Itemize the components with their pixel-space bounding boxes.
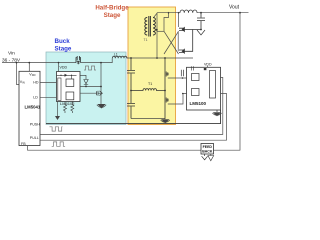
arrow feedback right — [208, 154, 214, 161]
wire power ground rail dark — [46, 110, 221, 124]
diode bootstrap mid — [80, 75, 86, 79]
svg-text:PULL: PULL — [30, 136, 39, 140]
capacitor divider C1 — [127, 58, 135, 91]
internal rail of LM5102 — [57, 74, 77, 76]
wire Vin to LM5041 VDD pin — [28, 63, 30, 72]
wire cross-couple diagonal A — [164, 31, 179, 54]
internal driver squares — [192, 74, 200, 81]
wire cap bottom to FET source — [131, 118, 165, 120]
internal driver square high — [66, 79, 74, 87]
ground half-bridge — [161, 119, 169, 123]
wire output rail top — [157, 12, 180, 14]
ground buck driver — [57, 102, 59, 117]
svg-text:Stage: Stage — [55, 46, 72, 53]
wire PULL line — [40, 94, 227, 141]
winding left vertical — [145, 18, 147, 36]
junction switch node — [100, 62, 102, 64]
label Half-Bridge Stage — [95, 5, 129, 20]
wire driver to diode node — [80, 86, 101, 88]
wire HD — [40, 82, 57, 84]
wire LD — [40, 96, 57, 98]
transistor sync rectifier upper — [179, 13, 202, 31]
wire Vin to LM5041 VIN pin — [17, 63, 20, 85]
wire PUSH line — [40, 78, 223, 135]
wire VDD stub — [58, 63, 60, 72]
wire cross-couple diagonal B — [164, 31, 179, 54]
ground feedback left — [202, 154, 208, 160]
wire low gate to driver — [168, 94, 187, 105]
svg-text:T1: T1 — [144, 38, 148, 42]
wire main mid rail — [127, 57, 193, 59]
feedback block — [201, 144, 214, 155]
svg-text:Buck: Buck — [55, 38, 71, 45]
ground buck branch — [97, 104, 105, 109]
svg-text:VDD: VDD — [204, 62, 212, 66]
waveform pull — [52, 142, 65, 146]
waveform push — [50, 127, 63, 131]
half-bridge stage highlight region — [128, 7, 176, 125]
gate driver U1 LM5102 box — [57, 72, 81, 102]
capacitor output — [197, 13, 205, 30]
capacitor divider C2 — [127, 91, 135, 119]
wire rail after buck FET to node — [81, 58, 113, 62]
svg-text:L1: L1 — [114, 52, 118, 56]
wire winding top elbow to rail — [154, 13, 157, 17]
wire driver low gate — [80, 92, 97, 94]
resistor gate R2 — [71, 102, 74, 114]
svg-text:Stage: Stage — [104, 12, 121, 19]
ground output cap — [197, 30, 205, 35]
pin labels LM5041 — [20, 73, 40, 146]
winding right vertical — [153, 18, 155, 36]
svg-text:FB: FB — [21, 142, 26, 146]
svg-text:LM5100: LM5100 — [190, 101, 207, 106]
capacitor boot — [181, 70, 183, 76]
resistor gate R1 — [64, 102, 67, 114]
junction VIN — [28, 62, 30, 64]
svg-text:VDD: VDD — [29, 73, 35, 78]
transistor buck high-side FET — [76, 56, 81, 64]
wire high gate to driver — [168, 77, 187, 79]
svg-text:LM5041: LM5041 — [25, 105, 41, 110]
svg-text:Vout: Vout — [229, 5, 240, 11]
junction node FET drain — [164, 57, 166, 59]
svg-text:BACK: BACK — [202, 150, 213, 154]
transistor half-bridge high FET — [165, 58, 169, 91]
transformer core lines — [149, 16, 151, 37]
svg-text:Vin: Vin — [8, 51, 15, 57]
wire Vout drop — [214, 13, 241, 151]
capacitor vdd bypass — [192, 66, 194, 70]
wire secondary vertical — [156, 13, 158, 58]
chip LM5041 box — [19, 71, 40, 145]
transistor sync rectifier lower — [179, 30, 193, 53]
junction node secondary vertical — [156, 57, 158, 59]
buck stage highlight region — [46, 52, 126, 125]
phase dot — [156, 29, 158, 31]
svg-text:Half-Bridge: Half-Bridge — [95, 5, 129, 12]
wire VDD stub — [207, 66, 209, 68]
svg-text:LD: LD — [33, 95, 38, 99]
wire FB line — [28, 146, 202, 150]
wire switch node down branch — [100, 63, 102, 104]
ground LM5100 — [216, 110, 218, 112]
wire tap — [157, 30, 164, 32]
gate driver U2 LM5100 box — [187, 67, 221, 110]
node Vin label — [2, 51, 21, 64]
label Buck Stage — [55, 38, 72, 53]
junction node divider top — [130, 57, 132, 59]
wire Vin rail — [2, 62, 76, 64]
svg-text:VIN: VIN — [20, 80, 25, 85]
svg-text:VDD: VDD — [60, 66, 68, 70]
wire staircase from rail — [164, 13, 169, 32]
svg-text:FEED: FEED — [203, 145, 213, 149]
transistor buck low-side FET — [97, 91, 103, 96]
svg-text:T1: T1 — [148, 82, 152, 86]
wire inter-FET — [177, 31, 179, 51]
diode internal bootstrap — [65, 74, 68, 77]
internal output bar — [210, 71, 216, 99]
waveform buck switch node — [84, 66, 96, 70]
inductor Lout — [180, 10, 197, 13]
internal driver square low — [66, 92, 74, 100]
transistor half-bridge low FET — [165, 91, 169, 120]
svg-text:HD: HD — [33, 81, 39, 85]
svg-text:PUSH: PUSH — [30, 122, 40, 126]
internal driver bar — [58, 78, 61, 101]
